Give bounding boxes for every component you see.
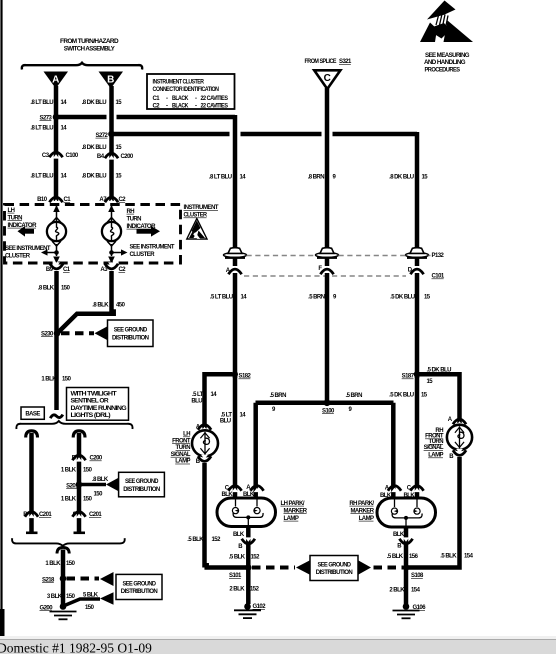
- wire .8 DK BLU 15 from connector B: [109, 86, 114, 201]
- label .8 DK BLU 15: [389, 174, 428, 180]
- label .5 DK BLU 15: [427, 367, 452, 385]
- wire LH indicator return: [41, 241, 61, 264]
- svg-text:C201: C201: [89, 512, 102, 518]
- svg-text:150: 150: [85, 605, 95, 611]
- splice S230: [41, 330, 60, 337]
- ground G106: [393, 603, 427, 618]
- svg-text:.8 LT BLU: .8 LT BLU: [209, 174, 232, 180]
- svg-text:AND HANDLING: AND HANDLING: [424, 60, 466, 66]
- svg-text:.8 LT BLU: .8 LT BLU: [30, 174, 53, 180]
- brace (option split bottom): [12, 538, 125, 546]
- svg-text:.5 BLK: .5 BLK: [229, 555, 246, 561]
- label .8 BLK 150: [38, 286, 71, 292]
- svg-text:150: 150: [94, 492, 104, 498]
- svg-text:2 BLK: 2 BLK: [229, 587, 245, 593]
- label .8 LT BLU 14: [30, 100, 67, 106]
- svg-text:S100: S100: [322, 408, 335, 414]
- label .5 BRN 9 (left): [270, 393, 287, 413]
- wire .5 BLK 152 LH front return: [205, 463, 247, 568]
- svg-text:154: 154: [411, 588, 421, 594]
- label 2 BLK 154: [389, 588, 420, 594]
- label .5 BRN 9: [308, 294, 337, 300]
- svg-text:DISTRIBUTION: DISTRIBUTION: [112, 335, 149, 341]
- wire end cap (DRL): [74, 531, 86, 534]
- svg-text:S187: S187: [402, 374, 415, 380]
- svg-text:.5 BRN: .5 BRN: [270, 393, 287, 399]
- svg-text:B10: B10: [37, 197, 48, 203]
- splice S108: [403, 564, 424, 579]
- splice S201: [66, 481, 82, 489]
- LH direction arrow: [18, 226, 35, 237]
- indicator lamp LH TURN INDICATOR: [47, 222, 66, 241]
- svg-text:156: 156: [409, 554, 419, 560]
- wire RH indicator feed: [107, 203, 116, 223]
- ESD warning symbol (small): [187, 219, 207, 240]
- label .8 DK BLU 15: [82, 174, 123, 180]
- svg-text:.5 BLK: .5 BLK: [187, 537, 204, 543]
- svg-text:450: 450: [116, 303, 126, 309]
- svg-text:MARKER: MARKER: [284, 508, 308, 514]
- svg-text:.5 DK BLU: .5 DK BLU: [427, 367, 452, 373]
- bulkhead connector P132: [224, 248, 445, 259]
- see ground distribution reference: [296, 556, 403, 581]
- svg-text:.8 LT BLU: .8 LT BLU: [30, 100, 53, 106]
- indicator lamp RH TURN INDICATOR: [102, 222, 121, 241]
- label 1 BLK 150: [61, 468, 93, 474]
- svg-text:150: 150: [66, 561, 76, 567]
- see ground distribution reference: [106, 472, 164, 497]
- svg-text:1 BLK: 1 BLK: [41, 377, 57, 383]
- label .5 BRN 9 (right): [346, 393, 363, 413]
- label see measuring and handling procedures: [424, 53, 470, 73]
- wire to ground distribution (dashed): [67, 577, 100, 581]
- svg-text:INSTRUMENT: INSTRUMENT: [184, 205, 219, 211]
- svg-text:.8 DK BLU: .8 DK BLU: [82, 174, 107, 180]
- lamp RH FRONT TURN SIGNAL LAMP: [447, 417, 472, 460]
- svg-text:Domestic #1 1982-95 O1-09: Domestic #1 1982-95 O1-09: [0, 641, 152, 654]
- wire BASE path: [26, 431, 38, 532]
- connector C100 pin C3: [42, 152, 79, 159]
- ground G102: [234, 603, 266, 618]
- svg-text:WITH TWILIGHT: WITH TWILIGHT: [71, 391, 118, 397]
- svg-text:SEE GROUND: SEE GROUND: [114, 328, 148, 334]
- svg-text:C100: C100: [66, 153, 79, 159]
- label .5 BLK 152: [229, 555, 260, 561]
- svg-text:DISTRIBUTION: DISTRIBUTION: [121, 589, 158, 595]
- svg-text:S182: S182: [239, 374, 252, 380]
- wire 1 BLK 150 to S218: [57, 547, 69, 605]
- wire LH park return pin B: [233, 526, 255, 565]
- lamp LH PARK/MARKER LAMP: [217, 485, 276, 527]
- svg-text:DAYTIME RUNNING: DAYTIME RUNNING: [71, 406, 128, 412]
- label .5 BLK 154: [440, 554, 473, 560]
- see ground distribution reference: [95, 320, 154, 347]
- svg-text:CLUSTER: CLUSTER: [5, 254, 31, 260]
- wire .8 BLK 150 from B9: [54, 271, 59, 410]
- svg-text:SEE GROUND: SEE GROUND: [125, 479, 159, 485]
- wire .5 BLK 154 RH front return: [408, 457, 460, 568]
- splice S218: [42, 575, 66, 583]
- wire 2 BLK 152 to G102: [246, 568, 251, 605]
- wire DRL path: [73, 431, 85, 532]
- splice S100: [256, 400, 394, 498]
- svg-text:1 BLK: 1 BLK: [61, 468, 77, 474]
- off-page connector B (turn/hazard switch): [99, 72, 124, 89]
- svg-text:152: 152: [212, 537, 222, 543]
- svg-text:.8 DK BLU: .8 DK BLU: [389, 174, 414, 180]
- svg-text:.5 BLK: .5 BLK: [387, 554, 404, 560]
- svg-text:.8 BLK: .8 BLK: [92, 303, 109, 309]
- label .5 BLK 156: [387, 554, 419, 560]
- svg-text:SEE INSTRUMENT: SEE INSTRUMENT: [130, 245, 175, 251]
- svg-text:.8 BRN: .8 BRN: [308, 174, 325, 180]
- wire .5 DK BLU 15 branch to RH front turn signal lamp: [419, 374, 460, 423]
- svg-text:1 BLK: 1 BLK: [61, 496, 77, 502]
- svg-text:S273: S273: [40, 115, 53, 121]
- svg-text:SEE GROUND: SEE GROUND: [123, 581, 157, 587]
- svg-text:.5 BRN: .5 BRN: [346, 393, 363, 399]
- node switch assembly brace: [22, 63, 142, 70]
- svg-text:.8 DK BLU: .8 DK BLU: [82, 100, 107, 106]
- svg-text:.8 LT BLU: .8 LT BLU: [30, 125, 53, 131]
- label 1 BLK 150: [41, 377, 71, 383]
- wire .5 BRN 9 to S100: [325, 273, 330, 403]
- label .8 DK BLU 15: [82, 145, 123, 151]
- wire .5 LT BLU 14 branch to LH front turn signal lamp: [205, 374, 233, 428]
- wire to ground distribution (dashed): [252, 566, 295, 570]
- svg-text:SEE INSTRUMENT: SEE INSTRUMENT: [5, 246, 51, 252]
- svg-text:CLUSTER: CLUSTER: [130, 252, 156, 258]
- wire .8 BRN 9 from splice S321: [325, 88, 330, 248]
- svg-text:G200: G200: [40, 605, 54, 611]
- svg-text:SIGNAL: SIGNAL: [171, 452, 191, 458]
- wire RH park return pin B: [393, 527, 413, 566]
- svg-text:1 BLK: 1 BLK: [45, 561, 61, 567]
- wire end cap (base): [26, 531, 38, 534]
- svg-text:150: 150: [62, 377, 72, 383]
- svg-text:.5 LT BLU: .5 LT BLU: [210, 294, 233, 300]
- connector C2 pin A7: [99, 197, 126, 204]
- ESD warning symbol: [420, 1, 473, 43]
- svg-text:FROM SPLICE: FROM SPLICE: [305, 59, 337, 65]
- svg-text:CONNECTOR IDENTIFICATION: CONNECTOR IDENTIFICATION: [153, 87, 219, 93]
- svg-text:TURN: TURN: [8, 215, 23, 221]
- svg-text:150: 150: [83, 468, 93, 474]
- svg-text:MARKER: MARKER: [350, 508, 374, 514]
- connector C201 pin 9 (DRL): [72, 512, 102, 518]
- brace (option split top): [16, 421, 132, 429]
- svg-text:G102: G102: [253, 604, 267, 610]
- ground G200: [40, 603, 77, 619]
- connector C200 pin B4: [97, 153, 134, 160]
- wire: [0, 609, 5, 636]
- wire end hook (base/DRL split): [50, 415, 63, 419]
- svg-text:C201: C201: [39, 512, 52, 518]
- connector C201 pin B (base): [23, 512, 52, 518]
- svg-text:.8 DK BLU: .8 DK BLU: [82, 145, 107, 151]
- svg-text:LH: LH: [8, 208, 15, 214]
- label .8 BRN 9: [308, 174, 337, 180]
- label .5 LT BLU 14: [191, 392, 217, 404]
- note instrument cluster connector identification: [147, 74, 235, 109]
- label 2 BLK 152: [229, 587, 259, 593]
- svg-text:FRONT: FRONT: [172, 438, 191, 444]
- svg-text:C101: C101: [432, 274, 445, 280]
- svg-text:BLK: BLK: [233, 532, 245, 538]
- svg-text:LH: LH: [183, 432, 190, 438]
- svg-text:DISTRIBUTION: DISTRIBUTION: [316, 570, 353, 576]
- svg-text:2 BLK: 2 BLK: [389, 588, 405, 594]
- connector C1 pin B9: [46, 262, 71, 273]
- wire between P132 and C101: [235, 258, 417, 266]
- label .8 DK BLU 15: [82, 100, 123, 106]
- svg-text:DISTRIBUTION: DISTRIBUTION: [123, 487, 160, 493]
- svg-text:.5 BRN: .5 BRN: [308, 294, 325, 300]
- svg-text:RH: RH: [127, 209, 135, 215]
- svg-text:BLK: BLK: [393, 532, 405, 538]
- svg-text:LH PARK/: LH PARK/: [281, 501, 305, 507]
- svg-text:C200: C200: [90, 456, 103, 462]
- svg-text:BLACK: BLACK: [172, 96, 189, 102]
- svg-text:C: C: [324, 73, 331, 84]
- label 1 BLK 150: [61, 496, 93, 502]
- off-page connector A (turn/hazard switch): [44, 72, 69, 89]
- svg-text:LAMP: LAMP: [428, 453, 443, 459]
- svg-text:S218: S218: [42, 577, 55, 583]
- svg-text:22 CAVITIES: 22 CAVITIES: [201, 96, 228, 102]
- label .5 LT BLU 14: [220, 412, 246, 424]
- svg-text:BASE: BASE: [25, 411, 40, 417]
- svg-text:TURN: TURN: [176, 445, 191, 451]
- svg-text:SEE MEASURING: SEE MEASURING: [425, 53, 470, 59]
- node FROM TURN/HAZARD SWITCH ASSEMBLY: [60, 39, 119, 53]
- instrument cluster boundary (dashed): [5, 205, 181, 264]
- label .8 LT BLU 14: [209, 174, 246, 180]
- svg-text:LAMP: LAMP: [359, 516, 374, 522]
- label SEE INSTRUMENT CLUSTER (RH): [130, 245, 175, 259]
- label .5 DK BLU 15: [389, 392, 428, 398]
- note BASE: [21, 407, 44, 419]
- svg-text:150: 150: [61, 286, 71, 292]
- label .8 LT BLU 14: [30, 125, 67, 131]
- lamp RH PARK/MARKER LAMP: [377, 486, 436, 528]
- see ground distribution reference: [100, 572, 162, 600]
- svg-text:BLU: BLU: [220, 419, 231, 425]
- wire .5 DK BLU 15 to S187: [415, 273, 420, 378]
- wire: [0, 0, 2, 634]
- svg-text:BLU: BLU: [191, 398, 202, 404]
- svg-text:5 BLK: 5 BLK: [83, 592, 99, 598]
- svg-text:.5 BLK: .5 BLK: [440, 554, 457, 560]
- wire .8 BLK 450 from A3: [58, 271, 114, 333]
- wire .5 LT BLU 14 to LH park lamp: [233, 372, 238, 497]
- svg-text:S272: S272: [96, 133, 109, 139]
- splice S101: [229, 564, 252, 579]
- svg-text:B: B: [107, 75, 114, 86]
- svg-text:FROM TURN/HAZARD: FROM TURN/HAZARD: [60, 39, 119, 45]
- wire 2 BLK 154 to G106: [404, 568, 409, 605]
- label LH FRONT TURN SIGNAL LAMP: [171, 432, 191, 465]
- svg-text:P132: P132: [432, 253, 445, 259]
- svg-text:S230: S230: [41, 331, 54, 337]
- svg-text:SENTINEL OR: SENTINEL OR: [71, 399, 110, 405]
- connector C200 pin B (DRL): [72, 455, 103, 462]
- connector C2 pin A3: [100, 262, 126, 273]
- svg-text:TURN: TURN: [127, 216, 142, 222]
- splice S273: [40, 114, 60, 122]
- label .5 BLK 152: [187, 537, 221, 543]
- label .8 BLK 450: [92, 303, 125, 309]
- wire .8 LT BLU from S273 to right: [58, 115, 235, 248]
- svg-text:SWITCH ASSEMBLY: SWITCH ASSEMBLY: [64, 47, 115, 53]
- svg-text:BLACK: BLACK: [172, 103, 189, 109]
- splice S272: [96, 131, 115, 139]
- svg-text:.5 DK BLU: .5 DK BLU: [389, 392, 414, 398]
- splice S182: [231, 371, 251, 380]
- label .8 LT BLU 14: [30, 174, 67, 180]
- svg-text:S108: S108: [411, 573, 424, 579]
- wire .5 DK BLU 15 to RH park lamp: [415, 372, 420, 497]
- svg-text:S101: S101: [229, 573, 242, 579]
- svg-text:154: 154: [464, 554, 474, 560]
- label LH PARK/ MARKER LAMP: [281, 501, 308, 522]
- splice S187: [402, 371, 421, 380]
- wire LH indicator feed: [52, 203, 61, 223]
- connector C101 pins A F D: [226, 266, 445, 280]
- svg-text:C200: C200: [121, 154, 134, 160]
- label SEE INSTRUMENT CLUSTER (LH): [5, 246, 51, 260]
- label RH TURN INDICATOR: [127, 209, 157, 230]
- label .5 DK BLU 15: [390, 294, 431, 300]
- svg-text:RH PARK/: RH PARK/: [349, 501, 374, 507]
- svg-text:LAMP: LAMP: [175, 459, 190, 465]
- svg-text:152: 152: [250, 587, 260, 593]
- off-page connector C (from splice S321): [314, 70, 340, 89]
- wire RH indicator return: [107, 241, 128, 264]
- wire 5 BLK 150 to ground distribution: [65, 592, 114, 611]
- svg-text:150: 150: [66, 594, 76, 600]
- RH direction arrow: [137, 226, 161, 237]
- svg-text:.8 BLK: .8 BLK: [92, 477, 109, 483]
- svg-text:.5 DK BLU: .5 DK BLU: [390, 294, 415, 300]
- svg-text:150: 150: [83, 496, 93, 502]
- wire to ground distribution (dashed): [61, 331, 94, 335]
- wire .8 BLK 150 to ground distribution: [82, 477, 109, 498]
- svg-text:.5 LT: .5 LT: [192, 392, 204, 398]
- svg-text:S321: S321: [339, 59, 352, 65]
- svg-text:SIGNAL: SIGNAL: [424, 445, 444, 451]
- svg-text:CLUSTER: CLUSTER: [184, 213, 208, 219]
- svg-text:152: 152: [251, 555, 261, 561]
- label RH FRONT TURN SIGNAL LAMP: [424, 428, 444, 459]
- label FROM SPLICE S321: [305, 59, 353, 65]
- svg-text:INSTRUMENT CLUSTER: INSTRUMENT CLUSTER: [153, 80, 205, 86]
- svg-text:3 BLK: 3 BLK: [47, 594, 63, 600]
- svg-text:.5 LT: .5 LT: [221, 412, 233, 418]
- label LH TURN INDICATOR: [8, 208, 38, 229]
- label INSTRUMENT CLUSTER: [184, 205, 219, 219]
- label .5 LT BLU 14: [210, 294, 247, 300]
- svg-text:A: A: [52, 75, 59, 86]
- svg-text:.8 BLK: .8 BLK: [38, 286, 55, 292]
- connector C1 pin B10: [37, 197, 71, 204]
- wire .5 LT BLU 14 to S182: [233, 273, 238, 378]
- wire .8 LT BLU 14 from connector A: [54, 86, 59, 201]
- note WITH TWILIGHT SENTINEL OR DRL: [67, 388, 129, 421]
- svg-text:SEE GROUND: SEE GROUND: [318, 562, 352, 568]
- status bar: [0, 636, 556, 654]
- label 3 BLK 150: [47, 594, 76, 600]
- svg-text:PROCEDURES: PROCEDURES: [425, 67, 461, 73]
- svg-text:LAMP: LAMP: [284, 516, 299, 522]
- svg-text:22 CAVITIES: 22 CAVITIES: [201, 103, 228, 109]
- lamp LH FRONT TURN SIGNAL LAMP: [192, 425, 218, 466]
- label RH PARK/ MARKER LAMP: [349, 501, 374, 522]
- wire .8 DK BLU from S272 to right: [114, 132, 417, 248]
- svg-text:LIGHTS (DRL): LIGHTS (DRL): [71, 413, 111, 419]
- label 1 BLK 150: [45, 561, 75, 567]
